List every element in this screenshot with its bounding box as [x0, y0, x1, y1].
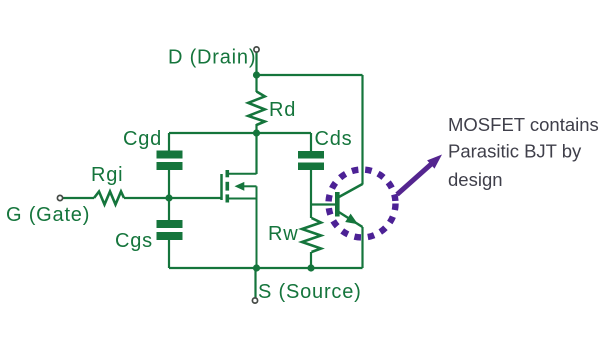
- capacitor Cds: [298, 151, 324, 170]
- node: source junction: [253, 264, 260, 271]
- transistor Q1 parasitic BJT: [335, 184, 363, 227]
- svg-text:Cgd: Cgd: [123, 128, 162, 150]
- svg-text:Cgs: Cgs: [115, 230, 153, 252]
- wire: source terminal stem: [254, 268, 256, 298]
- wire: BJT base wire: [311, 203, 335, 205]
- label Cgs: [115, 230, 153, 252]
- label Rgi: [91, 164, 123, 186]
- svg-text:G (Gate): G (Gate): [6, 204, 90, 226]
- label D (Drain): [168, 47, 256, 69]
- wire: top rail from drain node to right rail: [257, 74, 363, 76]
- annotation arrow to text: [397, 155, 442, 195]
- wire: drain vertical upper: [255, 53, 257, 93]
- label Cgd: [123, 128, 162, 150]
- wire: Rw bottom to source rail: [310, 252, 312, 268]
- svg-text:Rd: Rd: [269, 99, 296, 121]
- svg-text:Rgi: Rgi: [91, 164, 123, 186]
- terminal D open circle: [254, 47, 259, 52]
- svg-text:S (Source): S (Source): [258, 281, 362, 303]
- wire: Cds stem upper: [310, 133, 312, 151]
- svg-text:MOSFET contains: MOSFET contains: [448, 114, 599, 135]
- svg-text:design: design: [448, 169, 503, 190]
- wire: Cds to Rw through base node: [310, 170, 312, 218]
- terminal S open circle: [252, 298, 257, 303]
- wire: horizontal rail y=133 (Cgd-node-Cds): [169, 132, 311, 134]
- svg-text:D (Drain): D (Drain): [168, 47, 256, 69]
- wire: right rail lower (emitter to source rail): [361, 227, 363, 268]
- MOSFET M1: [222, 170, 257, 268]
- annotation text line 3: [448, 169, 503, 190]
- terminal G open circle: [57, 195, 62, 200]
- node: drain-right rail junction: [253, 71, 260, 78]
- wire: left branch top (rail to Cgd): [168, 133, 170, 151]
- label Cds: [315, 128, 353, 150]
- wire: left branch bottom (Cgs to source rail): [168, 240, 170, 268]
- label S (Source): [258, 281, 362, 303]
- dashed ellipse highlighting parasitic BJT: [329, 170, 396, 238]
- node: Rd bottom junction: [253, 129, 260, 136]
- label Rw: [268, 223, 299, 245]
- wire: gate wire from Rgi to MOSFET gate: [124, 197, 222, 199]
- wire: bottom source rail: [169, 267, 363, 269]
- label G (Gate): [6, 204, 90, 226]
- wire: left branch middle (Cgd to Cgs through gate node): [168, 170, 170, 220]
- svg-text:Cds: Cds: [315, 128, 353, 150]
- node: Rw bottom junction: [307, 264, 314, 271]
- resistor Rd: [248, 92, 265, 126]
- capacitor Cgs: [157, 220, 183, 240]
- label Rd: [269, 99, 296, 121]
- annotation text line 1: [448, 114, 599, 135]
- svg-text:Parasitic BJT by: Parasitic BJT by: [448, 141, 582, 162]
- wire: drain vertical to MOSFET drain: [255, 133, 257, 174]
- annotation text line 2: [448, 141, 582, 162]
- wire: drain vertical between Rd and node: [255, 124, 257, 133]
- svg-text:Rw: Rw: [268, 223, 299, 245]
- resistor Rgi: [94, 192, 124, 205]
- wire: right rail upper (to BJT collector): [361, 75, 363, 185]
- capacitor Cgd: [157, 151, 183, 171]
- resistor Rw: [302, 218, 321, 252]
- wire: gate lead from terminal to Rgi: [63, 197, 95, 199]
- node: gate junction: [165, 194, 172, 201]
